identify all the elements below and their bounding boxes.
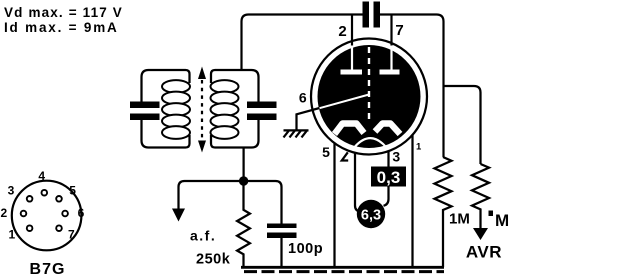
svg-text:250k: 250k bbox=[196, 252, 231, 268]
wire secondary bottom to junction bbox=[242, 148, 244, 182]
chassis rail hatched dashes bbox=[244, 270, 444, 273]
svg-text:Id max. = 9mA: Id max. = 9mA bbox=[4, 20, 119, 35]
svg-text:M: M bbox=[495, 211, 509, 230]
transformer primary coil L1 bbox=[162, 80, 190, 139]
svg-text:a.f.: a.f. bbox=[190, 228, 216, 244]
heater current label 0,3 bbox=[371, 167, 406, 187]
wire pin 5 lead bbox=[333, 143, 335, 267]
capacitor secondary tank bbox=[247, 102, 277, 109]
anode lead pin 7 (internal) bbox=[390, 50, 392, 71]
wire pin 2 lead to rail bbox=[351, 15, 353, 46]
wire junction to a.f. output bbox=[179, 181, 244, 210]
socket pin hole 1 bbox=[27, 225, 33, 231]
wire pin 1 lead bbox=[411, 135, 413, 267]
socket pin hole 7 bbox=[56, 225, 62, 231]
resistor 'M (AVR load) bbox=[472, 164, 489, 228]
node detector output junction bbox=[239, 176, 248, 185]
cathode k1 bbox=[335, 124, 365, 135]
wire junction to 100p bbox=[244, 181, 282, 224]
heater dome arc bbox=[355, 138, 386, 147]
svg-text:1: 1 bbox=[8, 228, 15, 242]
wire top rail right segment bbox=[380, 15, 444, 158]
svg-text:Vd max. = 117 V: Vd max. = 117 V bbox=[4, 5, 123, 20]
wire pin 3 heater lead bbox=[384, 151, 389, 206]
tube internal partition (dashed) bbox=[368, 47, 370, 122]
pin label 4 (angle glyph) bbox=[342, 152, 348, 160]
socket pin hole 4 bbox=[42, 190, 48, 196]
svg-text:6,3: 6,3 bbox=[361, 208, 381, 224]
anode lead pin 2 (internal) bbox=[351, 48, 353, 71]
wire 100p to rail bbox=[280, 238, 282, 267]
svg-text:2: 2 bbox=[0, 206, 7, 220]
capacitor 100p bbox=[267, 224, 297, 229]
wire pin 4 heater lead bbox=[355, 153, 361, 212]
socket pin hole 6 bbox=[62, 211, 68, 217]
socket pin hole 3 bbox=[27, 196, 33, 202]
cathode k2 bbox=[375, 124, 400, 135]
capacitor C top coupling bbox=[363, 2, 370, 28]
wire secondary top to top rail bbox=[242, 15, 363, 71]
secondary tank loop wire bbox=[211, 70, 259, 148]
svg-text:B7G: B7G bbox=[30, 261, 66, 278]
capacitor primary tank bbox=[130, 102, 160, 109]
svg-text:1: 1 bbox=[416, 142, 422, 153]
svg-text:100p: 100p bbox=[288, 241, 323, 257]
wire pin 6 to ground bbox=[297, 108, 320, 130]
tube envelope outline bbox=[311, 39, 427, 155]
shield lead pin 6 (internal) bbox=[319, 95, 369, 109]
tube V1 EB91 envelope disc bbox=[318, 45, 421, 148]
anode a1 bbox=[341, 70, 363, 75]
svg-text:AVR: AVR bbox=[466, 243, 502, 262]
ground symbol bbox=[284, 130, 309, 137]
svg-text:0,3: 0,3 bbox=[377, 168, 401, 187]
svg-text:2: 2 bbox=[338, 23, 346, 40]
svg-text:3: 3 bbox=[8, 183, 15, 197]
wire pin 7 lead to rail bbox=[390, 15, 392, 46]
svg-text:6: 6 bbox=[299, 90, 307, 106]
svg-text:3: 3 bbox=[392, 149, 400, 165]
primary tank loop wire bbox=[142, 70, 190, 148]
svg-text:4: 4 bbox=[38, 169, 45, 183]
anode a2 bbox=[380, 70, 400, 75]
chassis rail solid bbox=[241, 266, 444, 269]
transformer secondary coil L2 bbox=[211, 80, 239, 139]
socket B7G outline bbox=[12, 181, 82, 251]
heater supply 6,3 V bbox=[357, 200, 385, 228]
tuning adjustable-core arrow bbox=[198, 67, 206, 153]
text 'M value dot bbox=[489, 211, 494, 217]
resistor 1M bbox=[435, 157, 452, 267]
svg-text:1M: 1M bbox=[449, 211, 470, 228]
socket pin hole 5 bbox=[56, 196, 62, 202]
svg-text:7: 7 bbox=[68, 228, 75, 242]
svg-text:5: 5 bbox=[69, 183, 76, 197]
socket pin hole 2 bbox=[21, 211, 27, 217]
wire branch to AVR resistor bbox=[444, 86, 481, 164]
resistor R 250k bbox=[237, 185, 250, 267]
svg-text:6: 6 bbox=[78, 206, 85, 220]
svg-text:5: 5 bbox=[322, 144, 330, 160]
svg-text:7: 7 bbox=[395, 22, 403, 39]
AVR output arrow bbox=[473, 228, 488, 240]
a.f. output arrow bbox=[172, 209, 185, 222]
